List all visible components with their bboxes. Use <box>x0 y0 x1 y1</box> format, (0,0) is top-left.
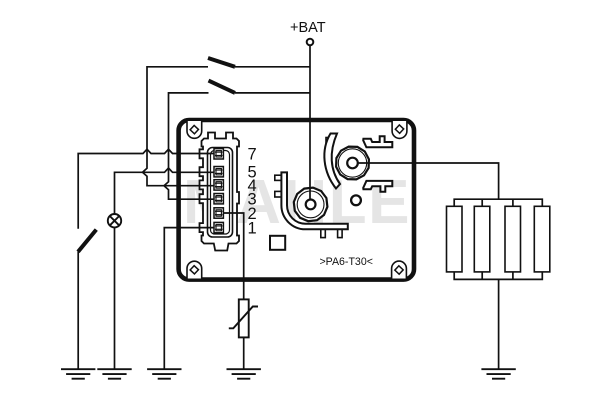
interior square detail <box>270 236 285 250</box>
small round boss <box>351 195 361 205</box>
svg-text:>PA6-T30<: >PA6-T30< <box>320 256 373 268</box>
indicator lamp <box>108 214 121 227</box>
mounting hole top-left <box>187 121 202 138</box>
svg-text:7: 7 <box>248 146 257 164</box>
lower busbar strap (L-shaped) <box>281 172 347 229</box>
upper busbar strap tab <box>326 138 332 143</box>
connector shell X1 <box>200 133 240 251</box>
wire +BAT drop to terminal 30 <box>309 45 311 198</box>
wire lamp to ground B <box>114 227 116 369</box>
ground D <box>227 369 261 379</box>
connector pin 7 <box>214 149 223 159</box>
wire sensor to ground D <box>243 337 245 369</box>
wire pin 2 to temperature sensor <box>224 213 244 299</box>
connector pin 3 <box>214 194 223 204</box>
svg-text:+BAT: +BAT <box>290 20 326 36</box>
connector inner wall inner <box>211 151 230 235</box>
mounting hole bottom-left <box>187 261 202 278</box>
mounting hole bottom-right <box>392 261 407 278</box>
wire S2 left + drop to pin 3 <box>164 93 214 199</box>
mounting hole top-right <box>392 121 407 138</box>
+BAT terminal circle <box>307 39 314 46</box>
wire output terminal to glow plugs <box>358 163 499 199</box>
wire pin 7 to ignition switch branch <box>78 149 214 229</box>
ground A <box>61 369 95 379</box>
ground C <box>147 369 181 379</box>
glow plug bottom bus <box>454 272 542 280</box>
glow plug top bus <box>454 199 542 206</box>
connector pin 1 <box>214 222 223 232</box>
glow plug 2 <box>474 206 490 272</box>
ground B <box>97 369 131 379</box>
connector pin 4 <box>214 180 223 190</box>
glow plug 4 <box>534 206 550 272</box>
upper spade terminal <box>363 136 392 147</box>
screw terminal output (upper, to glow plugs) <box>336 147 369 180</box>
temperature sensor (thermistor) <box>229 299 258 337</box>
lower busbar strap side tabs <box>275 175 282 180</box>
connector pin 5 <box>214 167 223 177</box>
svg-text:1: 1 <box>248 220 257 238</box>
control unit housing box <box>179 120 414 280</box>
wire glow plugs to ground E <box>498 279 500 368</box>
wire pin 5 to indicator lamp <box>115 168 215 214</box>
upper busbar strap (curved) <box>324 134 340 189</box>
lower spade terminal <box>363 181 392 192</box>
switch S2 blade <box>209 81 236 93</box>
glow plug 3 <box>505 206 521 272</box>
wire switch S1 to +BAT <box>235 66 310 68</box>
wire switch S2 to +BAT <box>235 92 310 94</box>
lower busbar strap feet <box>321 228 326 238</box>
connector pin 2 <box>214 208 223 218</box>
ground E <box>481 369 515 379</box>
wire switch S3 to ground A <box>77 252 79 370</box>
connector inner wall outer <box>208 148 233 238</box>
switch S3 blade <box>78 230 96 252</box>
screw terminal 30 (lower, battery) <box>294 188 328 222</box>
switch S1 blade <box>208 58 235 67</box>
wire S1 left + drop to pin 4 <box>143 67 215 186</box>
glow plug 1 <box>447 206 463 272</box>
wire pin 1 to ground C <box>164 228 214 369</box>
